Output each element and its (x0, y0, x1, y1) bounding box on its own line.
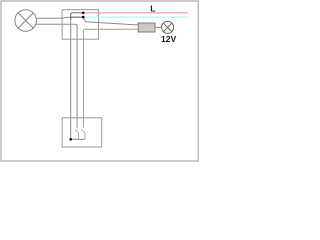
wire cable lamp-to-box bottom / wire 2 to switch (36, 24, 77, 127)
node L (junction dot) (82, 12, 85, 15)
frame border (1, 1, 198, 161)
switch box S1 (series switch) (62, 118, 101, 147)
lamp E2 (12V lamp) (162, 21, 174, 33)
wire N inside box (70, 16, 83, 18)
transformer T1 (138, 23, 155, 32)
junction box (62, 10, 98, 40)
wire L supply (red) (83, 12, 188, 14)
wire N supply (cyan) (83, 16, 188, 18)
node N (junction dot) (82, 16, 85, 19)
wire N to transformer (sloped) (83, 17, 138, 25)
switch blade S1b (82, 129, 85, 139)
switch common bar (71, 138, 84, 140)
switch blade S1a (75, 129, 78, 139)
wire 3 (switched line to transformer) (83, 29, 138, 127)
wire 1 (L down to switch) (71, 13, 84, 20)
svg-text:12V: 12V (161, 34, 177, 44)
wire transformer to 12V lamp (155, 26, 162, 28)
node switch common (junction dot) (69, 138, 72, 141)
svg-text:L: L (150, 4, 155, 14)
lamp E1 (ceiling lamp) (15, 10, 37, 32)
wire cable lamp-to-box top (36, 17, 83, 18)
